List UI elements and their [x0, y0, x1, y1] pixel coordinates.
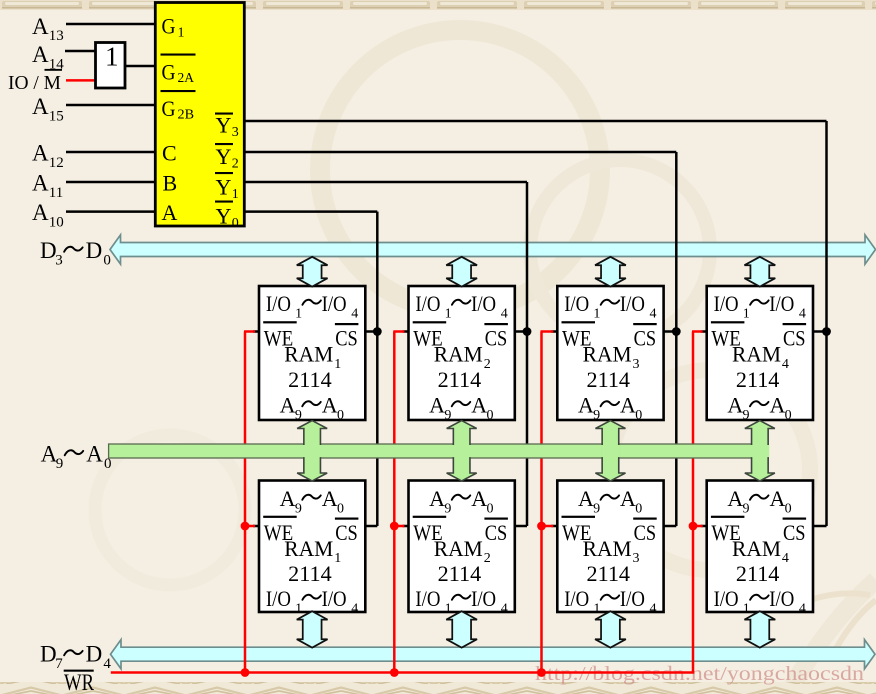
- junction node WE2: [390, 522, 399, 531]
- svg-text:I/O: I/O: [415, 291, 440, 316]
- svg-text:0: 0: [486, 408, 493, 423]
- svg-text:4: 4: [351, 602, 358, 617]
- svg-text:Y: Y: [216, 175, 232, 200]
- wire CS stub RAM4 bottom: [811, 525, 827, 528]
- svg-text:I/O: I/O: [620, 586, 645, 611]
- RAM1 2114 upper block: [259, 286, 365, 420]
- wire inverter out to G2A: [125, 65, 157, 68]
- svg-text:1: 1: [593, 602, 600, 617]
- svg-text:4: 4: [650, 307, 657, 322]
- svg-text:15: 15: [49, 108, 64, 124]
- red WE vertical 4: [692, 332, 695, 673]
- green connector A-bus to RAM1 pair: [297, 421, 327, 481]
- svg-text:A: A: [162, 200, 178, 225]
- pin G2A: [161, 54, 196, 56]
- svg-text:I/O: I/O: [769, 291, 794, 316]
- red WE stub bottom 1: [244, 525, 255, 528]
- svg-text:I/O: I/O: [714, 291, 739, 316]
- svg-text:4: 4: [501, 307, 508, 322]
- svg-text:D: D: [86, 642, 103, 667]
- wire A11 to B: [66, 181, 156, 184]
- svg-text:CS: CS: [335, 520, 358, 545]
- data bus D3~D0: [110, 235, 876, 264]
- wire A13 to G1: [66, 23, 156, 26]
- red WE stub top 2: [393, 330, 404, 333]
- cyan connector D-bus to RAM4 top: [744, 257, 775, 287]
- svg-text:Y: Y: [216, 113, 232, 138]
- cyan connector RAM3 bottom to D7-D4 bus: [595, 611, 626, 647]
- junction node WE3: [537, 522, 546, 531]
- svg-text:1: 1: [334, 357, 341, 372]
- svg-text:RAM: RAM: [583, 342, 632, 367]
- wire A14 to inverter: [65, 50, 96, 53]
- svg-text:0: 0: [785, 408, 792, 423]
- svg-text:CS: CS: [335, 325, 358, 350]
- svg-text:2114: 2114: [288, 561, 332, 586]
- svg-text:CS: CS: [485, 520, 508, 545]
- svg-text:7: 7: [55, 656, 63, 672]
- svg-text:A: A: [727, 393, 743, 418]
- junction node CS1: [373, 327, 382, 336]
- svg-text:A: A: [620, 486, 636, 511]
- wire WE stub RAM4 bottom: [701, 525, 709, 528]
- svg-text:I/O: I/O: [564, 586, 589, 611]
- svg-text:2: 2: [484, 357, 491, 372]
- cyan connector D-bus to RAM2 top: [446, 257, 477, 287]
- svg-text:1: 1: [295, 602, 302, 617]
- svg-text:A: A: [578, 486, 594, 511]
- svg-text:I/O: I/O: [620, 291, 645, 316]
- RAM2 2114 lower block: [409, 481, 515, 613]
- wire WE stub RAM4 top: [701, 330, 709, 333]
- svg-text:CS: CS: [783, 520, 806, 545]
- red WE vertical 3: [540, 332, 543, 673]
- svg-text:Y: Y: [216, 144, 232, 169]
- wire CS stub RAM3 top: [662, 330, 677, 333]
- wire CS stub RAM4 top: [811, 330, 827, 333]
- svg-text:I/O: I/O: [322, 291, 347, 316]
- top ornamental border: [0, 0, 876, 10]
- data bus D7~D4: [111, 640, 876, 669]
- junction node WR2: [390, 668, 399, 677]
- svg-text:CS: CS: [634, 520, 657, 545]
- wire CS stub RAM2 top: [513, 330, 527, 333]
- svg-text:C: C: [162, 141, 177, 166]
- cyan connector D-bus to RAM3 top: [595, 257, 626, 287]
- wire CS stub RAM2 bottom: [513, 525, 527, 528]
- red WE stub bottom 4: [692, 525, 703, 528]
- svg-text:1: 1: [105, 42, 119, 72]
- svg-text:0: 0: [635, 501, 642, 516]
- cyan connector D-bus to RAM1 top: [297, 257, 328, 287]
- wire CS stub RAM1 top: [363, 330, 377, 333]
- svg-text:9: 9: [743, 408, 750, 423]
- svg-text:1: 1: [232, 187, 239, 202]
- svg-text:http://blog.csdn.net/yongchaoc: http://blog.csdn.net/yongchaocsdn: [535, 663, 864, 685]
- red WE stub bottom 3: [541, 525, 554, 528]
- svg-text:1: 1: [445, 602, 452, 617]
- svg-text:4: 4: [782, 551, 789, 566]
- wire Y0 output: [244, 210, 377, 213]
- cyan connector RAM1 bottom to D7-D4 bus: [297, 611, 328, 647]
- svg-text:0: 0: [785, 501, 792, 516]
- wire CS stub RAM1 bottom: [363, 525, 377, 528]
- svg-text:A: A: [86, 442, 103, 467]
- svg-text:G: G: [162, 96, 176, 121]
- green connector A-bus to RAM2 pair: [447, 421, 477, 481]
- red WE vertical 2: [393, 332, 396, 673]
- svg-text:CS: CS: [634, 325, 657, 350]
- svg-text:9: 9: [444, 501, 451, 516]
- svg-text:1: 1: [334, 551, 341, 566]
- red WE stub top 1: [244, 330, 255, 333]
- svg-text:A: A: [769, 393, 785, 418]
- junction node WR3: [537, 668, 546, 677]
- wire A12 to C: [66, 151, 156, 154]
- svg-text:A: A: [32, 200, 49, 225]
- address bus A9~A0: [109, 444, 769, 458]
- wire Y3 vertical to CS: [825, 121, 828, 526]
- svg-text:2114: 2114: [438, 367, 482, 392]
- svg-text:12: 12: [49, 155, 64, 171]
- wire WE stub RAM3 top: [551, 330, 559, 333]
- inverter U2: [96, 43, 126, 89]
- wire WE stub RAM1 top: [253, 330, 261, 333]
- svg-text:2114: 2114: [587, 561, 631, 586]
- decoder 74LS138 U1: [155, 3, 244, 227]
- svg-text:4: 4: [351, 307, 358, 322]
- svg-text:I/O: I/O: [266, 586, 291, 611]
- svg-text:2A: 2A: [178, 71, 195, 86]
- svg-text:A: A: [471, 393, 487, 418]
- junction node WE1: [241, 522, 250, 531]
- svg-text:9: 9: [295, 408, 302, 423]
- svg-text:4: 4: [501, 602, 508, 617]
- pin G2B: [161, 90, 196, 92]
- svg-text:3: 3: [633, 357, 640, 372]
- svg-text:A: A: [322, 486, 338, 511]
- svg-text:2: 2: [232, 157, 239, 172]
- RAM3 2114 lower block: [557, 481, 663, 613]
- svg-text:I/O: I/O: [266, 291, 291, 316]
- svg-text:2114: 2114: [736, 367, 780, 392]
- svg-text:D: D: [40, 238, 57, 263]
- svg-text:G: G: [162, 60, 176, 85]
- pin Y0: [215, 201, 233, 203]
- svg-text:1: 1: [295, 307, 302, 322]
- svg-text:A: A: [32, 14, 49, 39]
- wire Y2 vertical to CS: [675, 152, 678, 526]
- svg-text:G: G: [162, 14, 176, 39]
- svg-text:3: 3: [232, 125, 239, 140]
- pin Y3: [215, 113, 233, 115]
- svg-text:0: 0: [486, 501, 493, 516]
- RAM4 2114 upper block: [707, 286, 813, 420]
- RAM3 2114 upper block: [557, 286, 663, 420]
- svg-text:A: A: [429, 393, 445, 418]
- svg-text:0: 0: [103, 252, 111, 268]
- svg-text:I/O: I/O: [415, 586, 440, 611]
- svg-text:A: A: [32, 42, 49, 67]
- svg-text:CS: CS: [485, 325, 508, 350]
- svg-text:RAM: RAM: [732, 536, 781, 561]
- svg-text:B: B: [163, 171, 178, 196]
- red WE stub top 3: [541, 330, 554, 333]
- svg-text:0: 0: [232, 216, 239, 231]
- wire WE stub RAM3 bottom: [551, 525, 559, 528]
- svg-text:IO / M: IO / M: [8, 73, 61, 94]
- svg-text:CS: CS: [783, 325, 806, 350]
- svg-text:A: A: [280, 486, 296, 511]
- svg-text:4: 4: [103, 656, 111, 672]
- svg-text:I/O: I/O: [471, 586, 496, 611]
- svg-text:13: 13: [49, 28, 64, 44]
- svg-text:4: 4: [650, 602, 657, 617]
- red WR line: [111, 671, 695, 674]
- svg-text:11: 11: [49, 185, 63, 201]
- junction node WE4: [689, 522, 698, 531]
- red WE stub top 4: [692, 330, 703, 333]
- svg-text:A: A: [32, 94, 49, 119]
- junction node CS4: [822, 327, 831, 336]
- wire Y2 output: [244, 151, 676, 154]
- svg-text:9: 9: [743, 501, 750, 516]
- svg-text:4: 4: [799, 307, 806, 322]
- svg-text:1: 1: [743, 307, 750, 322]
- wire CS stub RAM3 bottom: [662, 525, 677, 528]
- red WE stub bottom 2: [393, 525, 404, 528]
- svg-text:2114: 2114: [288, 367, 332, 392]
- svg-text:RAM: RAM: [583, 536, 632, 561]
- svg-text:RAM: RAM: [284, 342, 333, 367]
- wire WE stub RAM2 bottom: [403, 525, 411, 528]
- svg-text:RAM: RAM: [732, 342, 781, 367]
- cyan connector RAM4 bottom to D7-D4 bus: [744, 611, 775, 647]
- svg-text:RAM: RAM: [284, 536, 333, 561]
- green connector A-bus to RAM3 pair: [595, 421, 625, 481]
- svg-text:A: A: [769, 486, 785, 511]
- svg-text:1: 1: [743, 602, 750, 617]
- green connector A-bus to RAM4 pair: [745, 421, 775, 481]
- wire WE stub RAM1 bottom: [253, 525, 261, 528]
- svg-text:2114: 2114: [587, 367, 631, 392]
- svg-text:9: 9: [593, 408, 600, 423]
- svg-text:A: A: [620, 393, 636, 418]
- wire Y0 vertical to CS: [376, 212, 379, 526]
- wire Y3 output: [244, 120, 827, 123]
- svg-text:2: 2: [484, 551, 491, 566]
- svg-text:A: A: [322, 393, 338, 418]
- svg-text:0: 0: [337, 501, 344, 516]
- svg-text:I/O: I/O: [322, 586, 347, 611]
- red WE vertical 1: [244, 332, 247, 673]
- svg-text:10: 10: [49, 214, 64, 230]
- pin Y1: [215, 172, 233, 174]
- svg-text:D: D: [86, 238, 103, 263]
- svg-text:1: 1: [178, 25, 185, 40]
- svg-text:4: 4: [799, 602, 806, 617]
- wire A15 to G2B: [66, 104, 156, 107]
- RAM4 2114 lower block: [707, 481, 813, 613]
- svg-text:0: 0: [635, 408, 642, 423]
- svg-text:A: A: [578, 393, 594, 418]
- svg-text:I/O: I/O: [769, 586, 794, 611]
- wire WE stub RAM2 top: [403, 330, 411, 333]
- svg-text:A: A: [727, 486, 743, 511]
- svg-text:1: 1: [445, 307, 452, 322]
- pin Y2: [215, 143, 233, 145]
- wire Y1 vertical to CS: [526, 182, 529, 526]
- svg-text:Y: Y: [216, 204, 232, 229]
- svg-text:9: 9: [593, 501, 600, 516]
- svg-text:A: A: [32, 171, 49, 196]
- svg-text:2114: 2114: [438, 561, 482, 586]
- red wire IO/M to inverter: [66, 79, 96, 82]
- svg-text:I/O: I/O: [471, 291, 496, 316]
- svg-text:2B: 2B: [178, 108, 195, 123]
- svg-text:D: D: [40, 642, 57, 667]
- wire A10 to A: [66, 210, 156, 213]
- svg-text:0: 0: [337, 408, 344, 423]
- cyan connector RAM2 bottom to D7-D4 bus: [446, 611, 477, 647]
- svg-text:I/O: I/O: [714, 586, 739, 611]
- svg-text:A: A: [32, 141, 49, 166]
- junction node WR1: [241, 668, 250, 677]
- svg-text:3: 3: [633, 551, 640, 566]
- svg-text:RAM: RAM: [434, 536, 483, 561]
- junction node CS3: [672, 327, 681, 336]
- junction node CS2: [523, 327, 532, 336]
- svg-text:RAM: RAM: [434, 342, 483, 367]
- svg-text:9: 9: [444, 408, 451, 423]
- bottom ornamental border: [0, 682, 876, 694]
- svg-text:A: A: [429, 486, 445, 511]
- svg-text:2114: 2114: [736, 561, 780, 586]
- svg-text:I/O: I/O: [564, 291, 589, 316]
- svg-text:9: 9: [56, 456, 64, 472]
- svg-text:A: A: [471, 486, 487, 511]
- svg-text:0: 0: [104, 456, 112, 472]
- svg-text:WR: WR: [64, 670, 95, 694]
- svg-text:A: A: [280, 393, 296, 418]
- RAM1 2114 lower block: [259, 481, 365, 613]
- svg-text:9: 9: [295, 501, 302, 516]
- wire Y1 output: [244, 181, 527, 184]
- svg-text:3: 3: [55, 252, 63, 268]
- svg-text:4: 4: [782, 357, 789, 372]
- RAM2 2114 upper block: [409, 286, 515, 420]
- svg-text:1: 1: [593, 307, 600, 322]
